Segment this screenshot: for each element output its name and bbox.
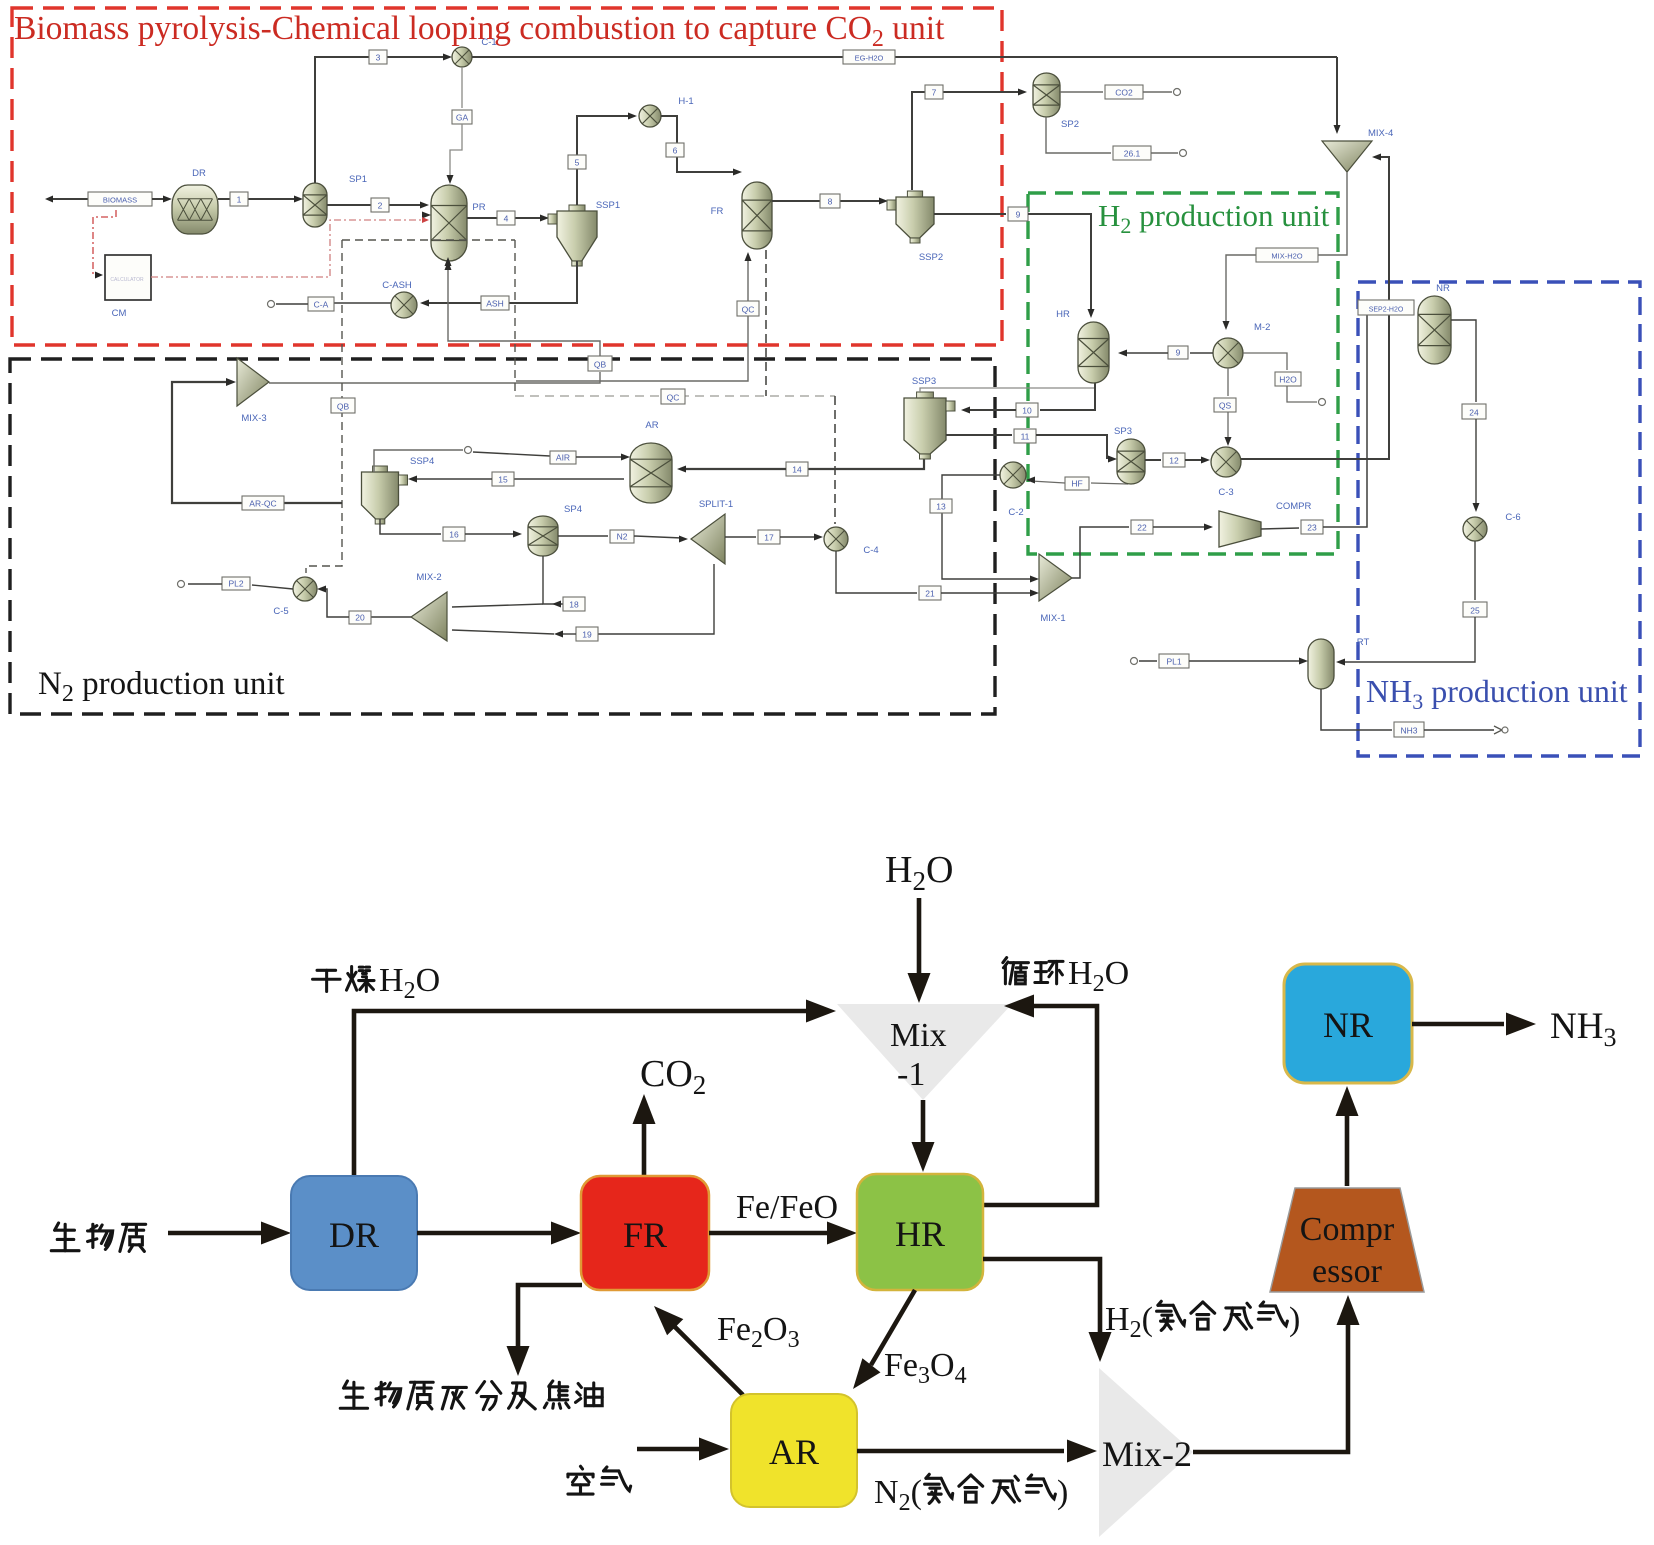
wire: Mix-2 to Compressor bbox=[1193, 1322, 1348, 1452]
mixer Mix-1 (gray triangle) bbox=[837, 1004, 1012, 1100]
svg-text:SP2: SP2 bbox=[1061, 119, 1079, 130]
svg-text:): ) bbox=[1289, 1301, 1300, 1338]
label 干燥H2O bbox=[313, 970, 341, 991]
svg-text:QS: QS bbox=[1219, 401, 1232, 411]
block Compressor bbox=[1270, 1188, 1424, 1292]
wire: SSP2 to HR, stream 9 bbox=[934, 213, 1006, 215]
svg-text:QB: QB bbox=[594, 360, 607, 370]
wire: SP2 bottom vent 26.1 bbox=[1046, 117, 1111, 153]
heater H-1 bbox=[639, 105, 661, 127]
label 空气 bbox=[568, 1466, 593, 1494]
wire: biomass feed bbox=[52, 198, 88, 200]
wire: FR to CO2 bbox=[642, 1120, 647, 1176]
wire: MIX-3 to PR bottom loop bbox=[269, 372, 600, 383]
svg-text:PL1: PL1 bbox=[1166, 657, 1181, 667]
splitter SPLIT-1 bbox=[691, 514, 725, 564]
block FR bbox=[581, 1176, 709, 1290]
svg-text:): ) bbox=[1057, 1474, 1068, 1511]
wire: SSP3 solids to AR, stream 14 bbox=[808, 455, 924, 469]
svg-text:H2(: H2( bbox=[1105, 1301, 1153, 1343]
svg-text:Mix: Mix bbox=[890, 1017, 947, 1054]
cooler C-2 bbox=[1000, 462, 1026, 488]
svg-text:6: 6 bbox=[673, 146, 678, 156]
svg-text:H2 production unit: H2 production unit bbox=[1098, 198, 1330, 238]
wire: SSP1 bottom to C-ASH (ASH) bbox=[479, 261, 577, 303]
svg-text:11: 11 bbox=[1021, 432, 1030, 442]
svg-text:-1: -1 bbox=[897, 1056, 925, 1093]
cooler C-5 bbox=[293, 577, 317, 601]
svg-text:22: 22 bbox=[1137, 523, 1147, 533]
svg-text:CALCULATOR: CALCULATOR bbox=[110, 277, 144, 283]
cooler C-6 bbox=[1463, 517, 1487, 541]
stream BIOMASS bbox=[88, 192, 152, 206]
svg-text:N2(: N2( bbox=[874, 1474, 922, 1516]
cooler C-3 bbox=[1211, 447, 1241, 477]
wire: C-6 to RT, stream 25 bbox=[1474, 541, 1476, 600]
svg-text:3: 3 bbox=[376, 53, 381, 63]
svg-text:PR: PR bbox=[472, 202, 485, 213]
wire: FR to HR bbox=[709, 1231, 828, 1236]
unit box: N2 production (black dashed) bbox=[10, 359, 995, 714]
wire: C-5 to vent PL2 bbox=[252, 585, 293, 589]
reactor HR bbox=[1078, 322, 1109, 383]
label 生物质 bbox=[51, 1223, 79, 1251]
svg-text:N2: N2 bbox=[617, 532, 628, 542]
cooler C-ASH bbox=[391, 292, 417, 318]
svg-text:CO2: CO2 bbox=[1115, 88, 1133, 98]
svg-text:C-1: C-1 bbox=[481, 37, 496, 48]
svg-text:16: 16 bbox=[449, 530, 459, 540]
unit box: H2 production (green dashed) bbox=[1028, 193, 1338, 554]
svg-text:MIX-3: MIX-3 bbox=[241, 413, 266, 424]
svg-text:17: 17 bbox=[764, 533, 774, 543]
wire: SPLIT-1 to C-4, stream 17 bbox=[725, 536, 756, 538]
wire: DR top to Mix-1 (dry H2O) bbox=[354, 1011, 806, 1176]
svg-text:SSP1: SSP1 bbox=[596, 200, 620, 211]
wire: HR bottom to SSP3, stream 10 bbox=[1040, 383, 1095, 410]
svg-text:MIX-4: MIX-4 bbox=[1368, 128, 1393, 139]
wire: RT bottom NH3 product bbox=[1321, 689, 1392, 730]
svg-text:AR-QC: AR-QC bbox=[249, 499, 276, 509]
wire: C-1 down to PR top, stream GA bbox=[461, 67, 463, 108]
cooler C-1 bbox=[452, 47, 472, 67]
wire: SP1 to PR, stream 2 bbox=[327, 204, 424, 206]
wire: H2O to Mix-1 bbox=[917, 898, 922, 978]
wire: stream 15 into SSP4 bbox=[514, 478, 624, 480]
svg-text:7: 7 bbox=[932, 88, 937, 98]
svg-text:SP3: SP3 bbox=[1114, 426, 1132, 437]
svg-text:DR: DR bbox=[329, 1215, 379, 1255]
wire: SSP4 vent bbox=[374, 450, 463, 472]
svg-text:18: 18 bbox=[569, 600, 579, 610]
heater M-2 bbox=[1213, 338, 1243, 368]
heat stream dashed network bbox=[342, 239, 515, 241]
svg-text:MIX-H2O: MIX-H2O bbox=[1271, 252, 1302, 261]
svg-text:PL2: PL2 bbox=[228, 579, 243, 589]
svg-text:C-ASH: C-ASH bbox=[382, 280, 412, 291]
wire: SP4 bottom to MIX-2, stream 18 bbox=[543, 556, 563, 604]
svg-text:4: 4 bbox=[504, 214, 509, 224]
block HR bbox=[857, 1174, 983, 1290]
wire: M-2 to HR bbox=[1190, 352, 1213, 354]
wire: FR to SSP2, stream 8 bbox=[772, 200, 882, 202]
mixer MIX-3 bbox=[237, 358, 269, 406]
svg-text:HF: HF bbox=[1071, 479, 1082, 489]
flash drum RT bbox=[1308, 639, 1334, 689]
svg-text:FR: FR bbox=[711, 206, 724, 217]
svg-text:CM: CM bbox=[112, 308, 127, 319]
wire: H-1 to FR top, stream 6 bbox=[661, 116, 737, 172]
svg-text:C-3: C-3 bbox=[1218, 487, 1233, 498]
svg-text:SPLIT-1: SPLIT-1 bbox=[699, 499, 733, 510]
cyclone SSP2 bbox=[887, 191, 934, 243]
svg-text:HR: HR bbox=[1056, 309, 1070, 320]
separator SP1 bbox=[303, 183, 327, 227]
svg-text:RT: RT bbox=[1357, 637, 1370, 648]
svg-text:12: 12 bbox=[1169, 456, 1179, 466]
svg-text:MIX-2: MIX-2 bbox=[416, 572, 441, 583]
wire: AR to Mix-2 (N2 syngas) bbox=[857, 1449, 1064, 1454]
svg-text:2: 2 bbox=[378, 201, 383, 211]
mixer MIX-1 bbox=[1039, 554, 1072, 601]
wire: PR to SSP1, stream 4 bbox=[467, 217, 543, 219]
wire: COMPR to NR, stream 23 bbox=[1261, 528, 1299, 529]
svg-text:8: 8 bbox=[828, 197, 833, 207]
svg-text:9: 9 bbox=[1176, 348, 1181, 358]
svg-text:SSP2: SSP2 bbox=[919, 252, 943, 263]
svg-text:Mix-2: Mix-2 bbox=[1102, 1434, 1192, 1474]
svg-text:NH3 production unit: NH3 production unit bbox=[1366, 673, 1628, 714]
wire: SP2 to CO2 vent bbox=[1060, 91, 1103, 93]
svg-text:H2O: H2O bbox=[1279, 375, 1297, 385]
wire: M-2 right to H2O vent bbox=[1243, 353, 1287, 370]
svg-text:SP4: SP4 bbox=[564, 504, 582, 515]
wire: SP1 top to C-1, stream 3 bbox=[315, 57, 447, 183]
wire: BIOMASS to DR bbox=[152, 198, 166, 200]
svg-text:C-5: C-5 bbox=[273, 606, 288, 617]
svg-text:SSP3: SSP3 bbox=[912, 376, 936, 387]
svg-text:NH3: NH3 bbox=[1400, 726, 1417, 736]
block DR bbox=[291, 1176, 417, 1290]
svg-text:AIR: AIR bbox=[556, 453, 570, 463]
wire: C-2 to MIX-1, stream 13 bbox=[942, 475, 1033, 579]
svg-text:C-A: C-A bbox=[314, 300, 329, 310]
wire: HR recycle H2O to Mix-1 bbox=[983, 1006, 1097, 1205]
svg-text:COMPR: COMPR bbox=[1276, 501, 1312, 512]
wire: SSP4 bottom to SP4, stream 16 bbox=[380, 519, 441, 534]
svg-text:ASH: ASH bbox=[486, 299, 503, 309]
svg-text:GA: GA bbox=[456, 113, 469, 123]
wire: PL1 feed to RT bbox=[1131, 658, 1138, 665]
svg-text:26.1: 26.1 bbox=[1124, 149, 1141, 159]
svg-text:QC: QC bbox=[742, 305, 755, 315]
svg-text:QB: QB bbox=[337, 402, 350, 412]
mixer Mix-2 (gray triangle) bbox=[1099, 1368, 1193, 1537]
svg-text:H-1: H-1 bbox=[678, 96, 693, 107]
svg-text:EG-H2O: EG-H2O bbox=[855, 54, 884, 63]
svg-text:C-4: C-4 bbox=[863, 545, 878, 556]
svg-text:Fe/FeO: Fe/FeO bbox=[736, 1189, 838, 1226]
wire: C-ASH to vent C-A bbox=[334, 302, 391, 304]
wire: C-1 to MIX-4 (EG-H2O) bbox=[472, 56, 1337, 58]
svg-text:NR: NR bbox=[1323, 1005, 1373, 1045]
svg-text:15: 15 bbox=[498, 475, 508, 485]
svg-text:25: 25 bbox=[1470, 606, 1480, 616]
svg-text:21: 21 bbox=[925, 589, 935, 599]
wire: C-4 to MIX-1, stream 21 bbox=[836, 551, 917, 593]
svg-text:BIOMASS: BIOMASS bbox=[103, 196, 137, 205]
wire: AR to FR (Fe2O3) bbox=[675, 1327, 743, 1395]
svg-text:14: 14 bbox=[792, 465, 802, 475]
wire: MIX-2 to C-5, stream 20 bbox=[371, 616, 411, 618]
svg-text:10: 10 bbox=[1022, 406, 1032, 416]
reactor NR bbox=[1418, 296, 1451, 364]
svg-text:MIX-1: MIX-1 bbox=[1040, 613, 1065, 624]
wire: Mix-1 to HR bbox=[921, 1100, 926, 1146]
reactor FR bbox=[742, 182, 772, 249]
wire: biomass to DR bbox=[168, 1231, 262, 1236]
svg-text:N2 production unit: N2 production unit bbox=[38, 666, 285, 707]
separator SP3 bbox=[1117, 439, 1145, 484]
svg-text:1: 1 bbox=[237, 195, 242, 205]
reactor PR bbox=[431, 185, 467, 261]
svg-text:C-6: C-6 bbox=[1505, 512, 1520, 523]
wire: SSP2 top to SP2, stream 7 bbox=[912, 92, 1022, 190]
svg-text:AR: AR bbox=[769, 1432, 819, 1472]
mixer MIX-2 bbox=[411, 592, 447, 641]
wire: SP3 bottom to C-2, stream HF bbox=[1091, 483, 1128, 484]
block AR bbox=[731, 1394, 857, 1507]
svg-text:SEP2-H2O: SEP2-H2O bbox=[1369, 307, 1404, 314]
separator SP2 bbox=[1033, 73, 1060, 117]
svg-text:13: 13 bbox=[936, 502, 946, 512]
svg-text:24: 24 bbox=[1469, 408, 1479, 418]
wire: FR ash out bbox=[518, 1285, 582, 1350]
svg-text:DR: DR bbox=[192, 168, 206, 179]
compressor COMPR bbox=[1219, 511, 1261, 547]
wire: C-3 to MIX-4 bbox=[1241, 157, 1389, 459]
block CM bbox=[105, 255, 151, 300]
wire: NR to C-6, stream 24 bbox=[1451, 320, 1476, 402]
svg-text:19: 19 bbox=[582, 630, 592, 640]
svg-text:FR: FR bbox=[623, 1215, 667, 1255]
wire: Compressor to NR bbox=[1345, 1112, 1350, 1186]
svg-text:20: 20 bbox=[355, 613, 365, 623]
wire: FR bottom heat QC bbox=[516, 256, 748, 381]
wire: AIR feed to AR bbox=[473, 452, 550, 456]
svg-text:NR: NR bbox=[1436, 283, 1450, 294]
block NR bbox=[1284, 964, 1412, 1083]
svg-text:9: 9 bbox=[1016, 210, 1021, 220]
svg-text:HR: HR bbox=[895, 1214, 945, 1254]
label biomass ash and tar bbox=[340, 1381, 367, 1408]
svg-text:M-2: M-2 bbox=[1254, 322, 1270, 333]
label 循环H2O bbox=[1003, 958, 1029, 984]
wire: DR to SP1, stream 1 bbox=[218, 198, 298, 200]
svg-text:AR: AR bbox=[645, 420, 658, 431]
svg-text:SP1: SP1 bbox=[349, 174, 367, 185]
svg-text:essor: essor bbox=[1312, 1253, 1383, 1290]
svg-text:Biomass pyrolysis-Chemical loo: Biomass pyrolysis-Chemical looping combu… bbox=[14, 10, 945, 52]
wire: MIX-1 to COMPR, stream 22 bbox=[1072, 527, 1129, 578]
wire: SPLIT-1 bottom to MIX-2, stream 19 bbox=[598, 564, 714, 634]
unit box: Biomass pyrolysis CLC (red dashed) bbox=[12, 8, 1002, 345]
cyclone SSP3 bbox=[904, 392, 955, 459]
unit box: NH3 production (blue dashed) bbox=[1358, 282, 1640, 756]
wire: SP4 to SPLIT-1, stream N2 bbox=[558, 535, 608, 537]
svg-text:QC: QC bbox=[667, 393, 680, 403]
reactor AR bbox=[630, 443, 672, 503]
wire: SSP3 overhead gas bbox=[920, 388, 1095, 392]
cyclone SSP4 bbox=[362, 466, 408, 524]
svg-text:23: 23 bbox=[1307, 523, 1317, 533]
wire: air to AR bbox=[637, 1447, 700, 1452]
wire: HR to Mix-2 (H2 syngas) bbox=[983, 1259, 1100, 1336]
wire: MIX-4 to M-2 via MIX-H2O bbox=[1226, 172, 1347, 324]
wire: AR-QC into MIX-3 bbox=[172, 382, 342, 503]
svg-text:C-2: C-2 bbox=[1008, 507, 1023, 518]
separator SP4 bbox=[528, 516, 558, 556]
cyclone SSP1 bbox=[548, 205, 597, 266]
mixer MIX-4 bbox=[1322, 141, 1372, 172]
wire: HR to AR (Fe3O4) bbox=[871, 1290, 915, 1365]
wire: NR to NH3 bbox=[1412, 1022, 1504, 1027]
wire: CM dash-dot heat link bbox=[93, 210, 116, 275]
svg-text:SSP4: SSP4 bbox=[410, 456, 434, 467]
svg-text:5: 5 bbox=[575, 158, 580, 168]
wire: SSP1 top to H-1, stream 5 bbox=[577, 116, 632, 205]
wire: SP3 to C-3, stream 12 bbox=[1145, 459, 1161, 461]
cooler C-4 bbox=[824, 527, 848, 551]
svg-text:Compr: Compr bbox=[1300, 1211, 1395, 1248]
reactor DR bbox=[172, 185, 218, 234]
wire: SSP3 to SP3, stream 11 bbox=[946, 434, 1012, 436]
wire: M-2 bottom to C-3, stream QS bbox=[1227, 368, 1229, 396]
wire: DR to FR bbox=[417, 1231, 552, 1236]
